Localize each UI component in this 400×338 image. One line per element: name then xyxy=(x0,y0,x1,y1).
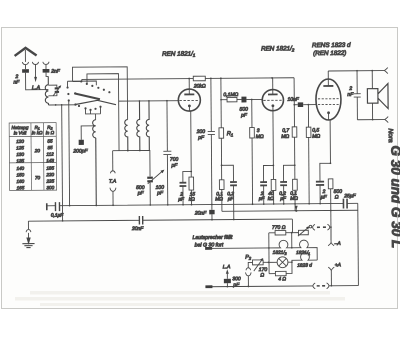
bus B (ground line) xyxy=(28,219,292,221)
junction xyxy=(268,261,270,263)
wire anode2 corner down to coupling cap xyxy=(293,78,295,127)
heater 1821/2 xyxy=(269,240,292,248)
capacitor 0,1 uF (bus) xyxy=(55,202,59,211)
capacitor 20nF in bus B xyxy=(139,216,142,225)
bus C (heater line) xyxy=(206,247,269,249)
resistor 500 Ohm bias xyxy=(328,179,333,240)
svg-text:pF: pF xyxy=(197,135,205,141)
svg-text:in kΩ: in kΩ xyxy=(32,130,43,135)
capacitor 700pF xyxy=(163,101,172,205)
svg-text:pF: pF xyxy=(240,113,248,119)
svg-text:REN 1821/1: REN 1821/1 xyxy=(162,51,196,58)
junction xyxy=(295,210,297,212)
svg-text:pF: pF xyxy=(156,190,164,196)
ghost print-through (faint) xyxy=(15,291,345,306)
svg-text:143: 143 xyxy=(46,158,54,163)
svg-text:–A: –A xyxy=(334,241,342,247)
wire ground drop xyxy=(27,221,29,229)
bus D end lug xyxy=(205,285,212,288)
socket A1 xyxy=(22,62,28,65)
svg-text:20nF: 20nF xyxy=(194,210,207,216)
capacitor 20nF (block) on link xyxy=(209,204,215,219)
tube U1 anode lead xyxy=(188,79,190,95)
junction xyxy=(268,247,270,249)
junction xyxy=(291,247,293,249)
svg-text:0,1µF: 0,1µF xyxy=(51,213,64,219)
svg-text:kΩ: kΩ xyxy=(189,197,195,203)
resistor 0,1 MOhm (second) xyxy=(293,179,298,211)
wire grid line tube1 xyxy=(119,100,179,102)
svg-text:T.A: T.A xyxy=(109,179,117,185)
junction xyxy=(221,164,223,166)
wire switch lower drops xyxy=(86,107,101,114)
wire anode supply line y78.5 xyxy=(82,78,294,80)
junction xyxy=(61,104,63,106)
junction cathode branch xyxy=(330,162,332,164)
svg-text:RENS 1823 d: RENS 1823 d xyxy=(312,42,351,49)
svg-text:MΩ: MΩ xyxy=(312,134,320,140)
resistor R1 xyxy=(219,78,224,180)
resistor 0,7 MOhm xyxy=(292,127,297,179)
junction xyxy=(166,100,168,102)
wire 15k to bus xyxy=(190,190,192,205)
capacitor 500 pF coupling (block) xyxy=(241,97,246,103)
trimmer capacitor on L1 xyxy=(48,85,61,96)
connector hook P2 xyxy=(246,268,251,270)
coil L1 antenna coil xyxy=(45,76,48,105)
svg-text:140: 140 xyxy=(16,166,24,171)
svg-text:L.A: L.A xyxy=(32,85,41,91)
svg-text:160: 160 xyxy=(17,179,25,184)
wire stub xyxy=(66,81,68,87)
junction xyxy=(272,165,274,167)
table Netzspg (mains voltage table) xyxy=(9,123,57,191)
capacitor 200 pF (screen) on vertical x211.6 xyxy=(207,78,215,204)
svg-text:225: 225 xyxy=(45,179,54,184)
coil L5 bandfilter c xyxy=(146,101,149,151)
tube U2 REN1821/2 envelope xyxy=(262,89,283,110)
junction xyxy=(55,104,57,106)
wire right edge vertical xyxy=(357,203,360,285)
capacitor 300 pF (LA) xyxy=(224,273,231,286)
capacitor 2 nF (output) xyxy=(354,71,361,120)
svg-text:300: 300 xyxy=(46,185,54,190)
resistor 15 kOhm cathode tube1 xyxy=(189,177,194,190)
svg-text:P2: P2 xyxy=(245,255,252,261)
junction grid2 xyxy=(251,99,253,101)
svg-text:1821/2: 1821/2 xyxy=(273,250,287,256)
junction xyxy=(330,226,332,228)
tube U2 cathode xyxy=(271,104,274,107)
wire tube3 grid line xyxy=(294,104,316,106)
svg-text:pF: pF xyxy=(232,282,240,288)
wire switch outer loop xyxy=(72,67,127,120)
wire filter bottom xyxy=(113,150,150,176)
tube U3 anode lead xyxy=(327,71,329,86)
capacitor 2 uF cathode tube1 xyxy=(179,171,191,204)
capacitor 10nF coupling (block) xyxy=(298,102,303,107)
wire +A to bus D xyxy=(330,270,332,285)
svg-text:25µF: 25µF xyxy=(343,193,356,199)
wire switch outer loop drop xyxy=(73,80,82,82)
svg-text:112: 112 xyxy=(46,152,54,157)
wire TA socket to bus xyxy=(112,191,114,205)
svg-text:nF: nF xyxy=(347,92,354,98)
wire 40k to bus xyxy=(273,190,275,204)
svg-text:µF: µF xyxy=(321,194,328,200)
trimmer capacitor 500pF/100pF tuning xyxy=(147,170,164,205)
svg-text:pF: pF xyxy=(170,163,178,169)
svg-text:MΩ: MΩ xyxy=(256,134,264,140)
switch pivot xyxy=(74,92,76,94)
wire to oscillator coil xyxy=(95,114,97,120)
svg-text:Nora: Nora xyxy=(387,128,394,143)
svg-text:L.A: L.A xyxy=(223,264,231,270)
wire TA drop xyxy=(112,151,114,171)
capacitor 0,2 uF (second) xyxy=(280,165,295,204)
svg-text:150: 150 xyxy=(16,172,24,177)
junction xyxy=(293,104,295,106)
junction xyxy=(220,99,222,101)
resistor 4 Ohm xyxy=(269,262,292,276)
heater 1823 d xyxy=(292,253,317,263)
svg-text:MΩ: MΩ xyxy=(281,134,289,140)
wire long vertical x62 xyxy=(61,105,64,221)
tube U1 anode xyxy=(184,93,194,95)
svg-text:+A: +A xyxy=(335,262,342,268)
wire P2 to bus D xyxy=(247,276,249,287)
svg-text:20kΩ: 20kΩ xyxy=(193,83,206,89)
wire cap2 to coil top xyxy=(46,73,48,77)
svg-text:bei G 30 fort: bei G 30 fort xyxy=(195,242,224,248)
loudspeaker xyxy=(367,84,388,109)
wire speaker top xyxy=(371,71,373,89)
svg-text:4 Ω: 4 Ω xyxy=(278,276,286,282)
coil L2 oscillator xyxy=(93,120,97,206)
svg-text:70: 70 xyxy=(35,175,41,180)
svg-text:REN 1821/2: REN 1821/2 xyxy=(261,45,295,52)
socket output top xyxy=(384,68,387,74)
wire antenna lead xyxy=(24,50,26,62)
wire speaker bottom xyxy=(371,103,373,119)
svg-text:85: 85 xyxy=(47,145,53,150)
junction xyxy=(211,219,213,221)
capacitor 2 uF cathode xyxy=(316,163,331,203)
socket output bottom xyxy=(385,117,388,123)
svg-text:Ω: Ω xyxy=(335,194,339,200)
heater 1821/1 xyxy=(292,240,317,260)
svg-text:1823 d: 1823 d xyxy=(297,263,312,269)
bus D (bottom line) xyxy=(206,286,358,287)
connector plug link bottom xyxy=(313,283,329,289)
wire tube2 grid line xyxy=(221,98,262,100)
tube U2 anode lead xyxy=(272,78,274,94)
bus A (chassis line) xyxy=(47,203,358,205)
tube U1 REN1821/1 envelope xyxy=(178,89,200,111)
wire coil L1 bottom to switch xyxy=(48,104,75,106)
junction xyxy=(271,77,273,79)
junction xyxy=(371,70,373,72)
svg-text:120: 120 xyxy=(16,139,24,144)
junction xyxy=(291,261,293,263)
switch pivot 2 xyxy=(74,103,76,105)
wave band switch contact row upper xyxy=(80,80,110,93)
switch left contacts xyxy=(66,86,69,101)
earth arrow xyxy=(27,233,30,244)
junction xyxy=(372,119,374,121)
svg-text:2nF: 2nF xyxy=(50,69,61,75)
junction xyxy=(220,77,222,79)
svg-text:in Ω: in Ω xyxy=(46,130,55,135)
socket A3 xyxy=(43,62,49,65)
resistor 0,1 MOhm (grid stopper) xyxy=(227,97,237,101)
svg-text:kΩ: kΩ xyxy=(268,196,274,202)
tube U1 cathode xyxy=(188,104,191,107)
junction xyxy=(294,164,296,166)
resistor 770 Ohm xyxy=(269,230,292,235)
coil L4 bandfilter b xyxy=(137,101,140,151)
wire top output line y72 xyxy=(328,70,384,72)
svg-text:165: 165 xyxy=(17,185,25,190)
resistor 0,5 MOhm xyxy=(306,105,311,204)
wire LA stub with arrow xyxy=(34,65,37,83)
capacitor 2nF (antenna) xyxy=(22,65,29,73)
svg-text:Lautsprecher fällt: Lautsprecher fällt xyxy=(193,235,233,241)
wire cap1 to coil bottom xyxy=(26,73,49,90)
tube U3 cathode lead xyxy=(329,113,331,164)
junction xyxy=(248,286,250,288)
socket -A xyxy=(328,243,334,246)
capacitor 2nF (second antenna input) xyxy=(43,65,50,73)
wire bottom output line y121 xyxy=(357,119,385,121)
tube U1 cathode lead xyxy=(189,106,191,177)
tube U2 anode xyxy=(268,93,278,95)
svg-text:125: 125 xyxy=(16,145,24,150)
svg-text:in Volt: in Volt xyxy=(14,130,27,135)
svg-text:0,1MΩ: 0,1MΩ xyxy=(223,92,238,98)
wire main anode line left end xyxy=(81,79,83,81)
tube U2 cathode lead xyxy=(272,106,275,180)
resistor 20 kOhm xyxy=(193,76,205,81)
bus C end lug xyxy=(205,247,212,250)
wire lamp leads xyxy=(269,261,292,263)
adjustable resistor (mains dropper) xyxy=(292,225,312,236)
switch lever 1 xyxy=(75,93,100,99)
capacitor 2 uF cathode tube2 xyxy=(260,165,274,204)
svg-text:20: 20 xyxy=(34,148,41,153)
switch lever 2 xyxy=(75,100,116,105)
resistor 3 MOhm grid leak tube2 xyxy=(249,99,254,204)
junction xyxy=(331,285,333,287)
svg-text:220: 220 xyxy=(45,172,54,177)
junction xyxy=(210,78,212,80)
connector hook (earth link) xyxy=(26,230,31,233)
bus B2 (negative line) xyxy=(222,210,358,211)
junction xyxy=(190,171,192,173)
wire long vertical x69 xyxy=(68,101,71,206)
capacitor 0,2 uF xyxy=(222,165,238,219)
tube U3 RENS1823d envelope xyxy=(316,79,341,120)
socket P2 xyxy=(246,272,252,275)
resistor 40 kOhm cathode tube2 xyxy=(271,179,276,190)
junction xyxy=(139,150,141,152)
bus A end bar xyxy=(46,203,48,210)
svg-text:55: 55 xyxy=(47,139,53,144)
svg-text:(REN 1822): (REN 1822) xyxy=(313,50,346,57)
tube U3 cathode xyxy=(327,111,330,114)
bus A junctions xyxy=(69,203,321,207)
svg-text:pF: pF xyxy=(137,190,145,196)
socket TA xyxy=(110,188,116,192)
connector hook TA xyxy=(110,171,115,173)
junction xyxy=(148,100,150,102)
junction xyxy=(127,150,129,152)
wire bus B corner into heater xyxy=(292,219,293,248)
wire heater left vertical xyxy=(268,233,270,274)
junction xyxy=(356,70,358,72)
wave band switch contact row lower xyxy=(78,105,102,111)
svg-text:R1: R1 xyxy=(227,131,234,137)
svg-text:130: 130 xyxy=(16,152,24,157)
junction xyxy=(291,232,293,234)
capacitor 200pF padder xyxy=(79,126,96,145)
junction xyxy=(139,100,141,102)
svg-text:MΩ: MΩ xyxy=(215,196,223,202)
resistor 0,1 MOhm (R1 lower) xyxy=(219,180,224,212)
tube U2 grid (dashed) xyxy=(263,99,282,101)
socket A2 xyxy=(32,62,38,65)
wire -A drop xyxy=(330,227,332,242)
svg-text:20nF: 20nF xyxy=(131,226,144,232)
potentiometer P2 xyxy=(248,258,268,271)
junction xyxy=(188,78,190,80)
socket +A xyxy=(328,267,334,270)
junction xyxy=(227,286,229,288)
tube U3 anode xyxy=(323,85,333,87)
svg-text:G 30 und G 30 L: G 30 und G 30 L xyxy=(388,145,400,248)
ground symbol xyxy=(22,244,34,248)
wire switch inner loop xyxy=(87,74,119,151)
svg-text:MΩ: MΩ xyxy=(290,196,298,202)
svg-text:10nF: 10nF xyxy=(287,97,299,103)
junction xyxy=(233,219,235,221)
wire switch short bar xyxy=(67,81,96,86)
dial lamp xyxy=(277,257,288,268)
svg-text:Ω: Ω xyxy=(260,272,264,278)
LA arrow up xyxy=(226,269,229,274)
coil L3 bandfilter a xyxy=(125,120,128,151)
junction xyxy=(307,104,309,106)
svg-text:770 Ω: 770 Ω xyxy=(272,225,286,231)
svg-text:135: 135 xyxy=(16,158,24,163)
antenna xyxy=(15,48,37,56)
tube U3 grids (dashed) xyxy=(318,99,339,105)
svg-text:185: 185 xyxy=(46,166,54,171)
svg-text:200pF: 200pF xyxy=(72,148,88,154)
junction xyxy=(330,210,332,212)
tube U1 grid (dashed) xyxy=(179,99,199,101)
svg-text:nF: nF xyxy=(13,79,20,85)
connector plug link xyxy=(313,224,331,230)
capacitor 25 uF (bus, right) xyxy=(343,199,347,209)
